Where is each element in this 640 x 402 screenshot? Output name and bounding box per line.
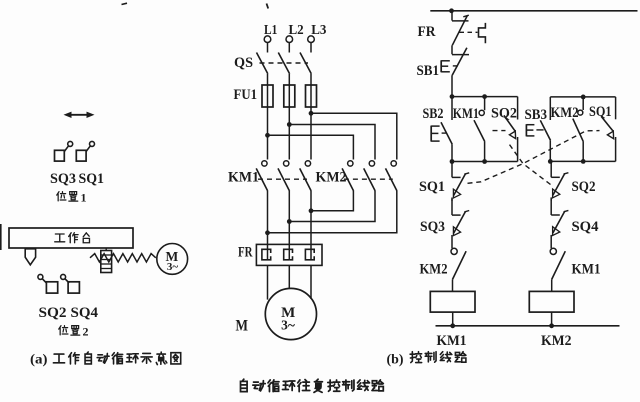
terminal L2: [286, 36, 293, 43]
contactor KM2 aux contact (self-hold): [573, 110, 584, 142]
wire FU1 to KM1 phase 3: [310, 107, 312, 160]
SQ2 linkage arrowhead: [509, 131, 515, 139]
limit switch SQ1 (NO) blade: [601, 116, 613, 131]
pushbutton SB3 (NO start): [526, 120, 550, 140]
wire KM2 branch upper: [582, 97, 584, 110]
wire branch L2 to KM2: [289, 125, 375, 160]
contactor KM2 main contact 2: [364, 161, 376, 191]
SQ2 linkage dashed line: [508, 143, 551, 185]
coil KM2: [529, 291, 574, 312]
svg-text:SQ1: SQ1: [419, 179, 445, 195]
node crossover C: [309, 208, 314, 213]
wire QS to FU1 phase 3: [310, 74, 312, 85]
SQ2 linkage dashed approach: [493, 130, 506, 132]
wire branch L1 to KM2: [268, 135, 354, 159]
wire SQ2 to SQ4: [550, 197, 552, 200]
svg-text:(b): (b): [387, 353, 404, 368]
switch QS blade phase 2: [278, 53, 289, 74]
limit switch SQ2 (NO) blade: [504, 115, 515, 131]
wire FR to motor 3: [310, 265, 312, 299]
svg-text:KM2: KM2: [541, 333, 572, 349]
fuse FU1 phase 2: [284, 85, 295, 107]
svg-text:SQ2: SQ2: [572, 179, 596, 195]
FR heater phase 2: [284, 249, 293, 259]
contactor KM1 interlock (NC): [550, 248, 565, 279]
limit switch bumper SQ4: [61, 274, 80, 293]
wire QS to FU1 phase 2: [288, 74, 290, 85]
limit switch bumper SQ1: [76, 141, 94, 161]
wire coil KM1 to bottom rail: [452, 312, 454, 326]
wire KM2-1 crossover to phase C: [311, 191, 353, 211]
svg-text:SB2: SB2: [423, 106, 444, 122]
wire L2 to QS: [288, 43, 290, 53]
svg-text:SQ3: SQ3: [420, 219, 445, 235]
thermal relay FR box: [256, 244, 322, 265]
svg-text:KM2: KM2: [420, 261, 448, 277]
fuse FU1 phase 3: [306, 85, 317, 107]
pushbutton SB2 (NO start): [431, 122, 452, 144]
svg-text:SB1: SB1: [417, 63, 440, 79]
wire SB2 to bottom rail: [451, 144, 453, 161]
svg-text:1: 1: [81, 191, 87, 205]
wire SQ4 to KM1 NC: [550, 235, 552, 248]
svg-text:(a): (a): [30, 353, 48, 368]
speck left-edge: [0, 224, 2, 250]
node coil KM2 bottom: [549, 323, 554, 328]
left group bottom rail: [452, 161, 518, 163]
worktable box (gong zuo tai): [9, 228, 133, 248]
svg-text:KM1: KM1: [572, 261, 601, 277]
wire SQ1 branch lower: [615, 137, 617, 161]
node left group bottom: [450, 159, 455, 164]
FR heater phase 3: [305, 249, 314, 259]
wire KM1-2 down: [288, 191, 290, 249]
limit switch bumper SQ3: [55, 141, 73, 161]
terminal L3: [308, 36, 315, 43]
wire FU1 to KM1 phase 2: [288, 107, 290, 160]
node coil KM1 bottom: [450, 323, 455, 328]
contactor KM1 aux contact (self-hold): [474, 110, 485, 141]
wire SQ3 to KM2 NC: [451, 235, 453, 248]
wire SB1 to node: [451, 75, 453, 96]
svg-text:L2: L2: [289, 23, 304, 38]
node right group bottom: [548, 159, 553, 164]
node after SB1: [450, 94, 455, 99]
svg-text:KM1: KM1: [437, 333, 467, 349]
wire QS to FU1 phase 1: [267, 74, 269, 85]
svg-text:SQ2: SQ2: [39, 305, 67, 321]
FR linkage dashed: [460, 31, 478, 33]
right group bottom rail: [550, 160, 615, 162]
limit switch SQ2 (NC): [551, 161, 568, 197]
svg-text:3~: 3~: [167, 261, 179, 273]
node KM1 branch top: [482, 94, 487, 99]
svg-text:SQ3: SQ3: [50, 171, 76, 187]
label position-1 (wei zhi 1): [57, 192, 66, 201]
wire SB3 branch upper: [549, 97, 551, 120]
switch QS blade phase 1: [257, 53, 268, 74]
SQ1 linkage dashed line: [468, 131, 600, 184]
rack block with hatching: [101, 248, 112, 273]
svg-text:KM1: KM1: [453, 106, 479, 122]
lead screw zigzag spring: [90, 254, 156, 262]
wire branch L3 to KM2: [311, 113, 397, 159]
wire FU1 to KM1 phase 1: [267, 107, 269, 160]
wire KM1 branch lower: [484, 142, 486, 162]
svg-text:FR: FR: [418, 24, 436, 40]
node KM2 branch top: [581, 95, 586, 100]
KM1 linkage dashed bar: [258, 178, 307, 180]
node L1 branch: [265, 133, 270, 138]
wire KM1 NC to coil: [551, 279, 553, 291]
speck top-middle: [267, 4, 269, 9]
wire FR to SB1: [451, 45, 453, 54]
terminal L1: [264, 36, 271, 43]
double-headed travel arrow: [64, 112, 95, 118]
svg-text:KM1: KM1: [228, 170, 259, 186]
KM2 linkage dashed bar: [344, 178, 393, 180]
pushbutton SB1 (NC stop): [441, 48, 469, 75]
node L2 branch: [287, 122, 292, 127]
coil KM1: [430, 291, 475, 312]
wire KM2 branch lower: [582, 142, 584, 162]
wire SQ2 branch lower: [517, 137, 519, 162]
svg-text:2: 2: [83, 325, 89, 339]
worktable label: [55, 234, 65, 242]
node KM1 branch bottom: [482, 159, 487, 164]
limit switch SQ3 (NC): [452, 199, 469, 235]
contactor KM2 main contact 3: [386, 161, 398, 191]
svg-text:KM2: KM2: [316, 170, 347, 186]
main caption zidong xunhuan wangfu kongzhi xianlu: [241, 379, 248, 391]
svg-text:SQ1: SQ1: [79, 171, 105, 187]
QS linkage dashed bar: [260, 62, 309, 64]
node KM2 branch bottom: [581, 159, 586, 164]
svg-text:FU1: FU1: [234, 87, 258, 103]
fuse FU1 phase 1: [262, 85, 273, 107]
node L3 branch: [309, 111, 314, 116]
limit switch SQ1 (NC): [452, 162, 469, 198]
svg-text:SQ1: SQ1: [589, 104, 612, 120]
svg-text:FR: FR: [238, 245, 253, 261]
control top rail: [430, 10, 637, 12]
wire KM2-3 crossover to phase A: [268, 191, 397, 233]
svg-text:SB3: SB3: [525, 107, 548, 123]
FR heater phase 1: [262, 249, 271, 259]
wire L3 to QS: [310, 43, 312, 53]
contactor KM2 main contact 1: [342, 161, 354, 191]
wire L1 to QS: [267, 43, 269, 53]
switch QS blade phase 3: [300, 53, 311, 74]
dog / pointer under table: [25, 249, 35, 265]
node crossover A: [265, 230, 270, 235]
limit switch SQ4 (NC): [551, 199, 568, 235]
svg-text:SQ2: SQ2: [491, 105, 517, 121]
wire KM1-3 down: [310, 191, 312, 249]
contactor KM1 main contact 2: [278, 161, 290, 191]
wire FR to motor 1: [267, 265, 269, 299]
label position-2 (wei zhi 2): [59, 326, 68, 335]
speck top-left: [122, 3, 128, 4]
limit switch bumper SQ2: [38, 274, 58, 293]
svg-text:M: M: [236, 318, 249, 335]
wire coil KM2 to bottom rail: [551, 312, 553, 326]
svg-text:QS: QS: [234, 55, 253, 71]
FR trip-device symbol: [479, 23, 486, 43]
svg-text:3~: 3~: [281, 317, 295, 332]
contactor KM1 main contact 1: [256, 161, 268, 191]
wire SB3 to bottom rail: [549, 140, 551, 161]
svg-text:KM2: KM2: [551, 105, 579, 121]
FR NC contact (control): [452, 15, 469, 45]
control bottom rail: [436, 325, 620, 327]
wire KM1 branch upper: [484, 97, 486, 111]
motor circle M 3~ (mechanism): [157, 244, 188, 275]
svg-text:L3: L3: [311, 23, 326, 38]
contactor KM1 main contact 3: [300, 161, 312, 191]
wire SQ1 branch upper: [615, 97, 617, 119]
SQ1 linkage arrowhead: [607, 131, 613, 139]
svg-text:L1: L1: [264, 23, 277, 38]
svg-text:SQ4: SQ4: [71, 305, 99, 321]
wire SQ2 branch upper: [517, 97, 519, 120]
wire KM2-2 crossover to phase B: [289, 191, 375, 222]
wire FR to motor 2: [288, 265, 290, 288]
wire KM2 NC to coil: [452, 279, 454, 291]
left group top rail: [452, 96, 518, 98]
node top rail: [449, 8, 454, 13]
contactor KM2 interlock (NC): [451, 248, 466, 279]
wire SQ1 to SQ3: [451, 198, 453, 201]
wire rail to FR contact: [451, 11, 453, 21]
node crossover B: [287, 219, 292, 224]
motor M 3~ (main): [265, 288, 316, 339]
wire left group left branch: [451, 97, 453, 120]
right group top rail: [550, 96, 615, 98]
wire KM1-1 down: [267, 191, 269, 249]
svg-text:SQ4: SQ4: [572, 219, 599, 235]
